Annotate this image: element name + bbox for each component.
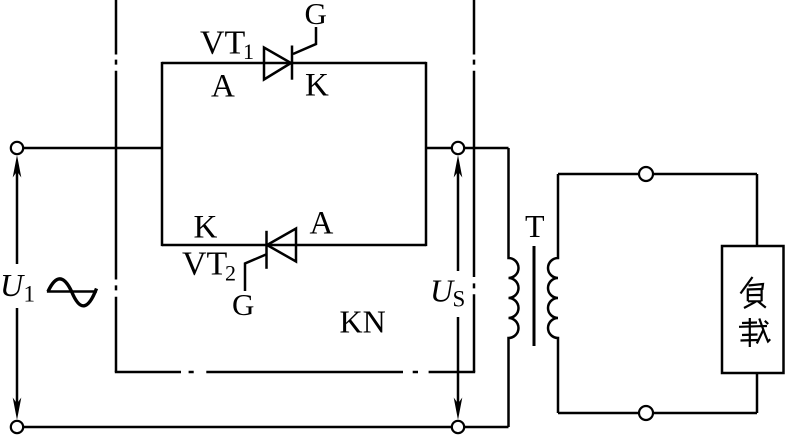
svg-text:U: U <box>0 267 25 303</box>
transformer core <box>533 246 536 346</box>
transformer T primary winding <box>509 148 519 427</box>
dash-dot enclosure KN right edge <box>473 0 476 372</box>
dash-dot enclosure KN bottom edge <box>115 371 475 374</box>
secondary top wire <box>558 173 757 176</box>
label VT2 <box>182 246 236 286</box>
voltage arrow U1 <box>13 155 22 420</box>
svg-text:G: G <box>305 0 327 31</box>
voltage arrow US <box>454 155 463 420</box>
svg-text:1: 1 <box>243 39 254 64</box>
svg-text:A: A <box>310 206 334 242</box>
svg-text:S: S <box>453 287 466 312</box>
svg-text:G: G <box>232 287 254 322</box>
svg-text:VT: VT <box>182 246 228 283</box>
secondary bottom wire <box>558 412 757 415</box>
svg-text:T: T <box>525 208 545 244</box>
terminal node input bottom <box>11 421 23 433</box>
label U1 <box>0 267 35 307</box>
load label char ZAI (carry) <box>739 318 770 347</box>
thyristor VT2 <box>245 229 296 292</box>
node US top <box>452 142 464 154</box>
svg-text:A: A <box>211 69 235 105</box>
svg-text:K: K <box>305 68 329 104</box>
thyristor loop right wire <box>425 62 428 246</box>
load label char FU (negative) <box>741 277 766 308</box>
svg-text:K: K <box>194 210 218 246</box>
wire input top <box>23 147 162 150</box>
wire node to transformer <box>426 147 509 150</box>
thyristor loop left wire <box>161 62 164 246</box>
svg-text:VT: VT <box>200 25 246 62</box>
thyristor loop top wire <box>162 62 426 65</box>
thyristor loop bottom wire <box>162 244 426 247</box>
thyristor VT1 <box>264 27 316 80</box>
secondary terminal top <box>639 167 653 181</box>
dash-dot enclosure KN left edge <box>115 0 118 372</box>
node US bottom <box>452 421 464 433</box>
secondary terminal bottom <box>639 406 653 420</box>
label US <box>430 273 465 312</box>
terminal node input top <box>11 142 23 154</box>
AC source sine symbol <box>47 279 97 306</box>
wire bottom <box>23 426 509 429</box>
svg-text:2: 2 <box>225 261 236 286</box>
svg-text:1: 1 <box>24 282 36 307</box>
svg-text:U: U <box>430 273 455 309</box>
wire load bottom <box>756 373 759 413</box>
wire to load top <box>756 174 759 246</box>
svg-text:KN: KN <box>340 304 386 340</box>
load box <box>722 246 784 373</box>
label VT1 <box>200 25 254 65</box>
transformer T secondary winding <box>548 174 558 413</box>
